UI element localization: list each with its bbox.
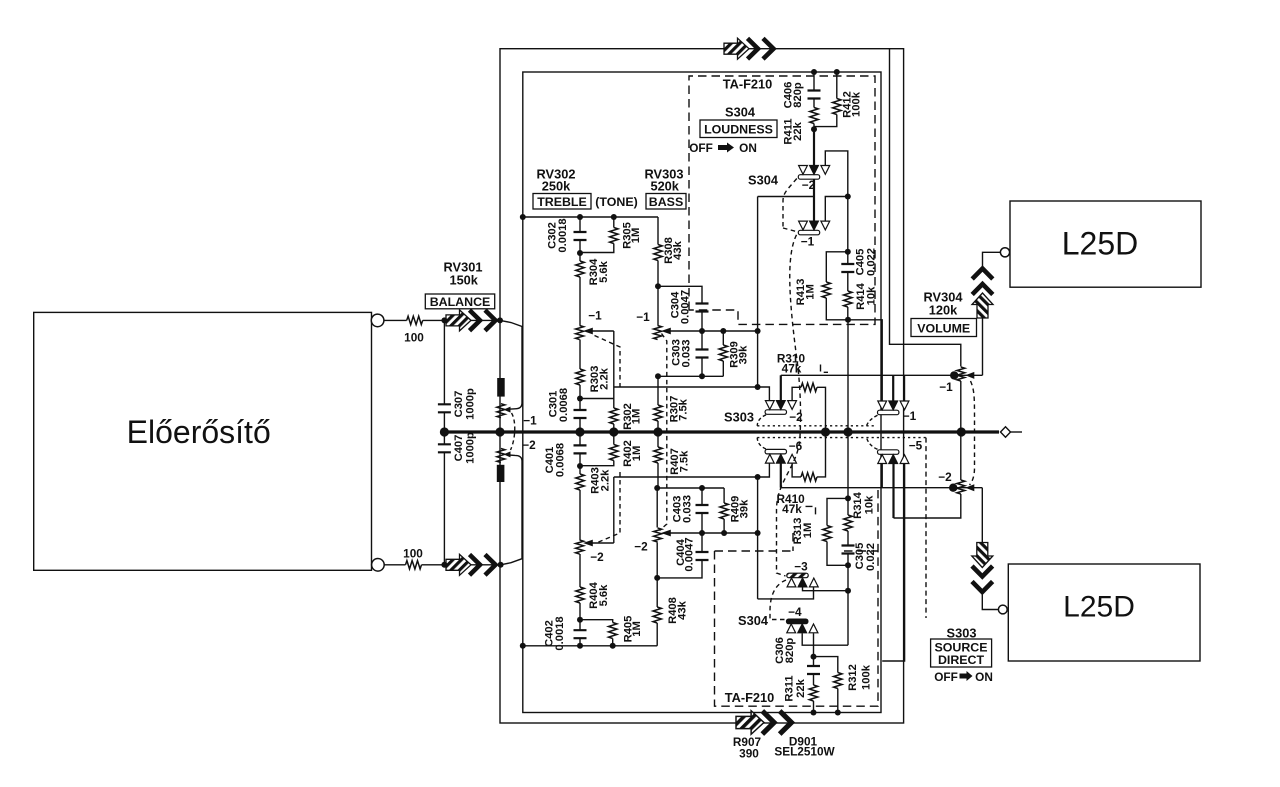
switch S303 contact 5 bbox=[878, 450, 909, 464]
svg-text:7.5k: 7.5k bbox=[678, 398, 690, 421]
svg-text:LOUDNESS: LOUDNESS bbox=[704, 123, 773, 137]
wire to balance node bottom bbox=[422, 564, 501, 566]
svg-text:TREBLE: TREBLE bbox=[537, 195, 587, 209]
svg-text:0.0047: 0.0047 bbox=[680, 290, 692, 324]
wire S303-1 right throw stub bbox=[904, 376, 906, 401]
wire balance wiper top bbox=[500, 320, 522, 409]
svg-text:520k: 520k bbox=[650, 179, 679, 194]
node loudness out bbox=[845, 317, 851, 323]
bus junction dots bbox=[440, 427, 449, 436]
svg-text:39k: 39k bbox=[739, 499, 751, 518]
capacitor C301 bbox=[579, 399, 581, 411]
wiper arrowhead RV304-1 bbox=[965, 372, 974, 379]
wire to balance node bbox=[423, 319, 500, 321]
svg-text:1M: 1M bbox=[630, 228, 642, 244]
node bass2 y488 bbox=[654, 485, 660, 491]
amplifier block L25D top bbox=[1010, 201, 1201, 287]
resistor R310 loop bbox=[792, 387, 801, 400]
svg-text:1M: 1M bbox=[631, 446, 643, 462]
wire y387 to S303 bbox=[614, 386, 758, 388]
node y376 left bbox=[655, 373, 661, 379]
resistor R409 bbox=[723, 488, 725, 503]
wire y477 to S303 bbox=[614, 476, 758, 478]
svg-text:−2: −2 bbox=[634, 540, 648, 554]
svg-text:−1: −1 bbox=[801, 235, 815, 249]
dashed link S304 chain bbox=[783, 179, 797, 229]
wire wiper drop treble bbox=[613, 331, 615, 408]
node top border bbox=[497, 317, 503, 323]
svg-text:BALANCE: BALANCE bbox=[430, 295, 491, 309]
node rail C302 bbox=[577, 214, 583, 220]
node below C302 bbox=[577, 250, 583, 256]
wiper arrow RV303-1 bbox=[670, 330, 758, 332]
wire S304-3 common bbox=[803, 588, 849, 591]
capacitor C403 bbox=[701, 488, 703, 505]
wiper arrowhead RV301-2 bbox=[504, 451, 511, 457]
wire bus to lower RC bbox=[847, 432, 849, 498]
label TREBLE bbox=[533, 194, 591, 210]
wire S303-1 left throw to loudness bbox=[848, 320, 882, 401]
resistor R312 bbox=[814, 657, 838, 673]
svg-text:−2: −2 bbox=[522, 438, 536, 452]
wire bypass upper x758 bbox=[757, 197, 759, 387]
wiper arrow RV302-1 bbox=[592, 330, 614, 332]
resistor 100 bottom bbox=[406, 561, 422, 569]
wire y488 branch bbox=[657, 487, 724, 489]
dashed link RV302 bbox=[595, 336, 621, 543]
potentiometer RV303 track 2 bbox=[656, 488, 658, 578]
label LOUDNESS bbox=[700, 120, 777, 138]
amplifier block L25D bottom bbox=[1008, 564, 1200, 661]
svg-text:−6: −6 bbox=[789, 439, 803, 453]
node C306 top bbox=[811, 654, 817, 660]
capacitor C302 bbox=[579, 217, 581, 232]
wire S303-5 left throw stem bbox=[881, 464, 883, 488]
svg-text:1M: 1M bbox=[631, 621, 643, 637]
label BASS bbox=[646, 194, 686, 210]
node R312 bottom bbox=[835, 710, 841, 716]
svg-text:1M: 1M bbox=[805, 284, 817, 300]
node R311 bottom bbox=[811, 710, 817, 716]
capacitor C305 bbox=[842, 546, 855, 554]
svg-text:−1: −1 bbox=[523, 414, 537, 428]
resistor R304 bbox=[579, 253, 581, 261]
feather arrow top border bbox=[724, 38, 774, 59]
node above C402 bbox=[577, 617, 583, 623]
svg-text:L25D: L25D bbox=[1063, 591, 1135, 624]
node below R303 bbox=[577, 396, 583, 402]
node bottom border bbox=[498, 562, 504, 568]
svg-text:43k: 43k bbox=[672, 240, 684, 259]
wire input bottom bbox=[384, 564, 405, 566]
potentiometer RV301 arrow top bbox=[446, 310, 496, 331]
label BALANCE bbox=[425, 294, 494, 309]
wire loudness column bbox=[847, 197, 849, 252]
svg-text:820p: 820p bbox=[792, 82, 804, 108]
svg-text:0.0018: 0.0018 bbox=[554, 616, 566, 650]
resistor R311 bbox=[809, 685, 817, 701]
svg-text:TA-F210: TA-F210 bbox=[725, 690, 775, 705]
svg-text:ON: ON bbox=[739, 141, 757, 155]
node bass wiper bypass bbox=[755, 328, 761, 334]
capacitor C306 bbox=[813, 657, 815, 666]
node y477 bbox=[755, 474, 761, 480]
resistor R402 bbox=[610, 445, 618, 461]
resistor R404 bbox=[579, 554, 581, 587]
potentiometer RV301 track 1 bbox=[497, 404, 505, 418]
feather arrow volume bottom bbox=[972, 543, 993, 593]
node y533 C403 bbox=[699, 530, 705, 536]
svg-text:TA-F210: TA-F210 bbox=[723, 77, 773, 92]
resistor R403 bbox=[579, 466, 581, 474]
dashed link RV304 bbox=[970, 381, 975, 485]
wire treble top rail bbox=[523, 216, 658, 218]
node y488 C403 bbox=[699, 485, 705, 491]
wire x758 to S304-3 bbox=[758, 588, 814, 599]
svg-text:S303: S303 bbox=[947, 626, 977, 641]
label VOLUME bbox=[911, 319, 977, 337]
resistor R305 bbox=[613, 217, 615, 228]
wire to S304 lower bbox=[847, 565, 849, 645]
wire S303-5 right throw down bbox=[882, 464, 904, 661]
node C304 bottom bbox=[699, 328, 705, 334]
wire bypass lower x758 bbox=[757, 477, 759, 599]
svg-text:0.0068: 0.0068 bbox=[558, 388, 570, 422]
switch S304 contact 1 loudness bbox=[798, 221, 829, 235]
svg-text:C307: C307 bbox=[453, 391, 465, 418]
node C405 top bbox=[845, 249, 851, 255]
svg-text:1M: 1M bbox=[631, 409, 643, 425]
potentiometer RV303 track 1 bbox=[657, 286, 659, 325]
node y533 bypass bbox=[755, 530, 761, 536]
potentiometer RV304 track 2 bbox=[960, 432, 962, 480]
svg-text:0.0068: 0.0068 bbox=[555, 443, 567, 477]
wire to L25D top bbox=[983, 252, 1001, 268]
svg-text:100k: 100k bbox=[861, 664, 873, 690]
node bottom input bbox=[441, 562, 447, 568]
node bass branch bbox=[655, 283, 661, 289]
node volume 2 track bbox=[949, 484, 957, 492]
node y533 R409 bbox=[721, 530, 727, 536]
svg-text:VOLUME: VOLUME bbox=[917, 321, 970, 335]
svg-text:0.0047: 0.0047 bbox=[684, 537, 696, 571]
wire left pole line y196 bbox=[758, 196, 814, 198]
input terminal top bbox=[371, 314, 384, 327]
svg-text:150k: 150k bbox=[449, 273, 478, 288]
svg-text:(TONE): (TONE) bbox=[595, 195, 637, 209]
resistor R410 loop bbox=[792, 463, 801, 477]
svg-text:OFF: OFF bbox=[689, 141, 713, 155]
svg-text:Előerősítő: Előerősítő bbox=[127, 414, 271, 450]
dashed block TA-F210 top bbox=[689, 76, 875, 324]
svg-text:OFF: OFF bbox=[934, 670, 958, 684]
resistor R314 bbox=[847, 498, 849, 515]
wiper arrowhead RV304-2 bbox=[965, 484, 974, 491]
main ground bus bbox=[444, 430, 999, 433]
wire S304-4 common bbox=[802, 633, 848, 645]
wire S303-5 common stem bbox=[892, 464, 894, 518]
svg-text:0.033: 0.033 bbox=[681, 495, 693, 523]
svg-text:100: 100 bbox=[403, 547, 423, 561]
svg-text:22k: 22k bbox=[795, 678, 807, 697]
resistor R303 bbox=[579, 340, 581, 370]
wire S304-2 right throw bbox=[825, 151, 848, 197]
inner shield border bbox=[523, 72, 881, 713]
svg-text:1000p: 1000p bbox=[465, 432, 477, 464]
svg-text:C407: C407 bbox=[453, 435, 465, 462]
preamp block Előerősítő bbox=[34, 312, 372, 570]
potentiometer RV304 track 1 bbox=[957, 367, 965, 381]
resistor R408 bbox=[656, 623, 658, 646]
svg-text:L25D: L25D bbox=[1062, 226, 1139, 262]
capacitor C405 bbox=[847, 252, 849, 264]
dashed link S303 to label bbox=[925, 438, 927, 618]
svg-text:10k: 10k bbox=[866, 286, 878, 305]
capacitor C401 bbox=[579, 432, 581, 445]
resistor R414 bbox=[844, 291, 852, 307]
node bottom rail R405 bbox=[610, 643, 616, 649]
capacitor C304 bbox=[658, 286, 702, 303]
wire S303-6 common stem bbox=[780, 463, 782, 487]
wire source direct bottom line bbox=[781, 488, 983, 547]
wire S303-1 common stem bbox=[892, 375, 894, 401]
wire bottom rail bbox=[523, 645, 657, 647]
capacitor C307 bbox=[443, 320, 445, 404]
switch S304 contact 2 loudness bbox=[798, 166, 829, 180]
resistor R308 bbox=[654, 245, 662, 261]
svg-text:10k: 10k bbox=[863, 495, 875, 514]
node R309 top bbox=[720, 328, 726, 334]
label SOURCE DIRECT bbox=[931, 639, 992, 667]
resistor R405 bbox=[580, 620, 613, 623]
dashed link RV301 bbox=[511, 413, 515, 450]
svg-text:0.033: 0.033 bbox=[680, 340, 692, 368]
node bottom rail C402 bbox=[577, 643, 583, 649]
node S304-3 line bbox=[845, 588, 851, 594]
capacitor C303 bbox=[701, 331, 703, 350]
svg-text:2.2k: 2.2k bbox=[599, 367, 611, 390]
svg-text:−1: −1 bbox=[939, 380, 953, 394]
svg-text:1000p: 1000p bbox=[465, 388, 477, 420]
dashed corner bracket near R410 bbox=[806, 506, 816, 515]
switch S303 contact 1 bbox=[878, 401, 909, 415]
svg-text:−2: −2 bbox=[590, 550, 604, 564]
svg-text:100: 100 bbox=[404, 331, 424, 345]
node y387 bbox=[755, 384, 761, 390]
terminal circle L25D top bbox=[1000, 248, 1009, 257]
wire S304-1 right throw bbox=[825, 197, 848, 222]
wire volume feed top bbox=[890, 49, 961, 367]
wire source direct top line bbox=[781, 318, 983, 376]
svg-text:S304: S304 bbox=[748, 173, 779, 188]
wire y376 bbox=[658, 375, 723, 377]
feather arrow volume top bbox=[972, 269, 993, 319]
resistor R302 bbox=[610, 408, 618, 424]
wire bypass corner to S303-2 bbox=[758, 387, 770, 401]
feather arrow bottom border bbox=[736, 711, 791, 735]
wire S304 bar2 to contact1 bbox=[813, 179, 815, 221]
svg-text:5.6k: 5.6k bbox=[598, 584, 610, 607]
node C406 top bbox=[811, 69, 817, 75]
node C404 bottom rail bbox=[654, 575, 660, 581]
outer shield border bbox=[500, 49, 904, 723]
svg-text:−1: −1 bbox=[636, 310, 650, 324]
terminal circle L25D bottom bbox=[998, 605, 1007, 614]
node rail R305 bbox=[611, 214, 617, 220]
wiper arrowhead RV301-1 bbox=[504, 407, 511, 413]
svg-text:S304: S304 bbox=[725, 105, 756, 120]
svg-text:−3: −3 bbox=[794, 560, 808, 574]
node y376 C303 bbox=[699, 373, 705, 379]
svg-text:0.022: 0.022 bbox=[865, 248, 877, 276]
wire to L25D bottom bbox=[982, 593, 998, 610]
wiper arrow RV303-2 bbox=[670, 532, 758, 534]
resistor R307 bbox=[657, 376, 659, 405]
svg-text:390: 390 bbox=[739, 747, 759, 761]
svg-text:39k: 39k bbox=[737, 345, 749, 364]
svg-text:−2: −2 bbox=[789, 410, 803, 424]
resistor R407 bbox=[657, 432, 659, 447]
svg-text:R311: R311 bbox=[784, 675, 796, 701]
svg-text:2.2k: 2.2k bbox=[600, 469, 612, 492]
wiper arrow RV302-2 bbox=[592, 477, 614, 543]
svg-text:1M: 1M bbox=[802, 523, 814, 539]
wire corner to S303-6 bbox=[758, 463, 770, 477]
node top input bbox=[441, 317, 447, 323]
resistor 100 top bbox=[407, 316, 423, 324]
svg-text:−1: −1 bbox=[588, 309, 602, 323]
potentiometer RV301 track 2 bbox=[497, 449, 505, 463]
svg-text:ON: ON bbox=[975, 670, 993, 684]
svg-text:−4: −4 bbox=[788, 605, 802, 619]
node rail left bbox=[520, 214, 526, 220]
switch S304 contact 3 bbox=[787, 573, 818, 587]
node R411 bottom bbox=[811, 126, 817, 132]
potentiometer RV302 track 1 bbox=[576, 326, 584, 340]
output diamond terminal bbox=[1001, 427, 1011, 437]
svg-text:−2: −2 bbox=[938, 470, 952, 484]
resistor R412 bbox=[836, 72, 838, 99]
node loudness right bbox=[845, 194, 851, 200]
wire S303-2 common stem bbox=[780, 375, 782, 400]
svg-text:R312: R312 bbox=[847, 664, 859, 691]
svg-text:100k: 100k bbox=[851, 91, 863, 117]
node bottom rail left bbox=[520, 643, 526, 649]
svg-text:5.6k: 5.6k bbox=[598, 260, 610, 283]
node volume 1 track bbox=[950, 371, 958, 379]
svg-text:−2: −2 bbox=[802, 178, 816, 192]
svg-text:DIRECT: DIRECT bbox=[938, 653, 985, 667]
svg-text:S304: S304 bbox=[738, 613, 769, 628]
switch S304 contact 4 bbox=[787, 619, 818, 633]
dotted link S303 upper bbox=[757, 425, 876, 427]
resistor R309 bbox=[722, 331, 724, 345]
node C305 bottom bbox=[845, 562, 851, 568]
svg-text:0.022: 0.022 bbox=[865, 543, 877, 571]
svg-text:BASS: BASS bbox=[649, 195, 683, 209]
wire loudness node to S304-2 bbox=[813, 129, 815, 165]
shield bar bottom on border bbox=[497, 465, 505, 482]
capacitor C404 bbox=[657, 560, 702, 578]
svg-text:7.5k: 7.5k bbox=[678, 450, 690, 473]
svg-text:SEL2510W: SEL2510W bbox=[774, 745, 835, 759]
resistor R413 bbox=[826, 252, 848, 282]
dashed block TA-F210 bottom bbox=[715, 490, 879, 706]
svg-text:43k: 43k bbox=[676, 600, 688, 619]
node R314 top bbox=[845, 495, 851, 501]
capacitor C402 bbox=[579, 620, 581, 631]
potentiometer RV301 arrow bottom bbox=[446, 554, 496, 575]
resistor R313 bbox=[827, 498, 848, 525]
svg-text:120k: 120k bbox=[929, 303, 958, 318]
svg-text:47k: 47k bbox=[782, 362, 802, 376]
wire input top bbox=[384, 319, 407, 321]
dotted link S303 lower bbox=[757, 437, 926, 439]
svg-text:47k: 47k bbox=[782, 502, 802, 516]
wire stub R302 top bbox=[580, 398, 614, 400]
wire S304-4 right throw bbox=[813, 633, 815, 656]
wire output stub bbox=[1011, 431, 1023, 433]
shield bar top on border bbox=[497, 378, 505, 397]
switch S303 contact 6 bbox=[765, 449, 796, 463]
wire bass column top bbox=[657, 217, 659, 245]
svg-text:22k: 22k bbox=[792, 121, 804, 140]
capacitor C407 bbox=[443, 432, 445, 444]
node below C401 bbox=[577, 463, 583, 469]
switch S303 contact 2 bbox=[765, 401, 796, 415]
resistor R411 bbox=[810, 108, 818, 124]
svg-text:250k: 250k bbox=[542, 179, 571, 194]
wire loudness to bus bbox=[847, 320, 849, 432]
dashed link RV303 bbox=[660, 334, 667, 531]
svg-text:−5: −5 bbox=[909, 438, 923, 452]
capacitor C406 bbox=[813, 72, 815, 91]
node R412 top bbox=[834, 69, 840, 75]
svg-text:S303: S303 bbox=[724, 410, 754, 425]
dashed corner bracket near R310 bbox=[821, 365, 829, 373]
svg-text:−1: −1 bbox=[903, 409, 917, 423]
input terminal bottom bbox=[372, 559, 385, 572]
potentiometer RV302 track 2 bbox=[576, 540, 584, 554]
svg-text:820p: 820p bbox=[784, 638, 796, 664]
wire balance wiper bottom bbox=[501, 455, 522, 565]
svg-text:0.0018: 0.0018 bbox=[557, 218, 569, 252]
